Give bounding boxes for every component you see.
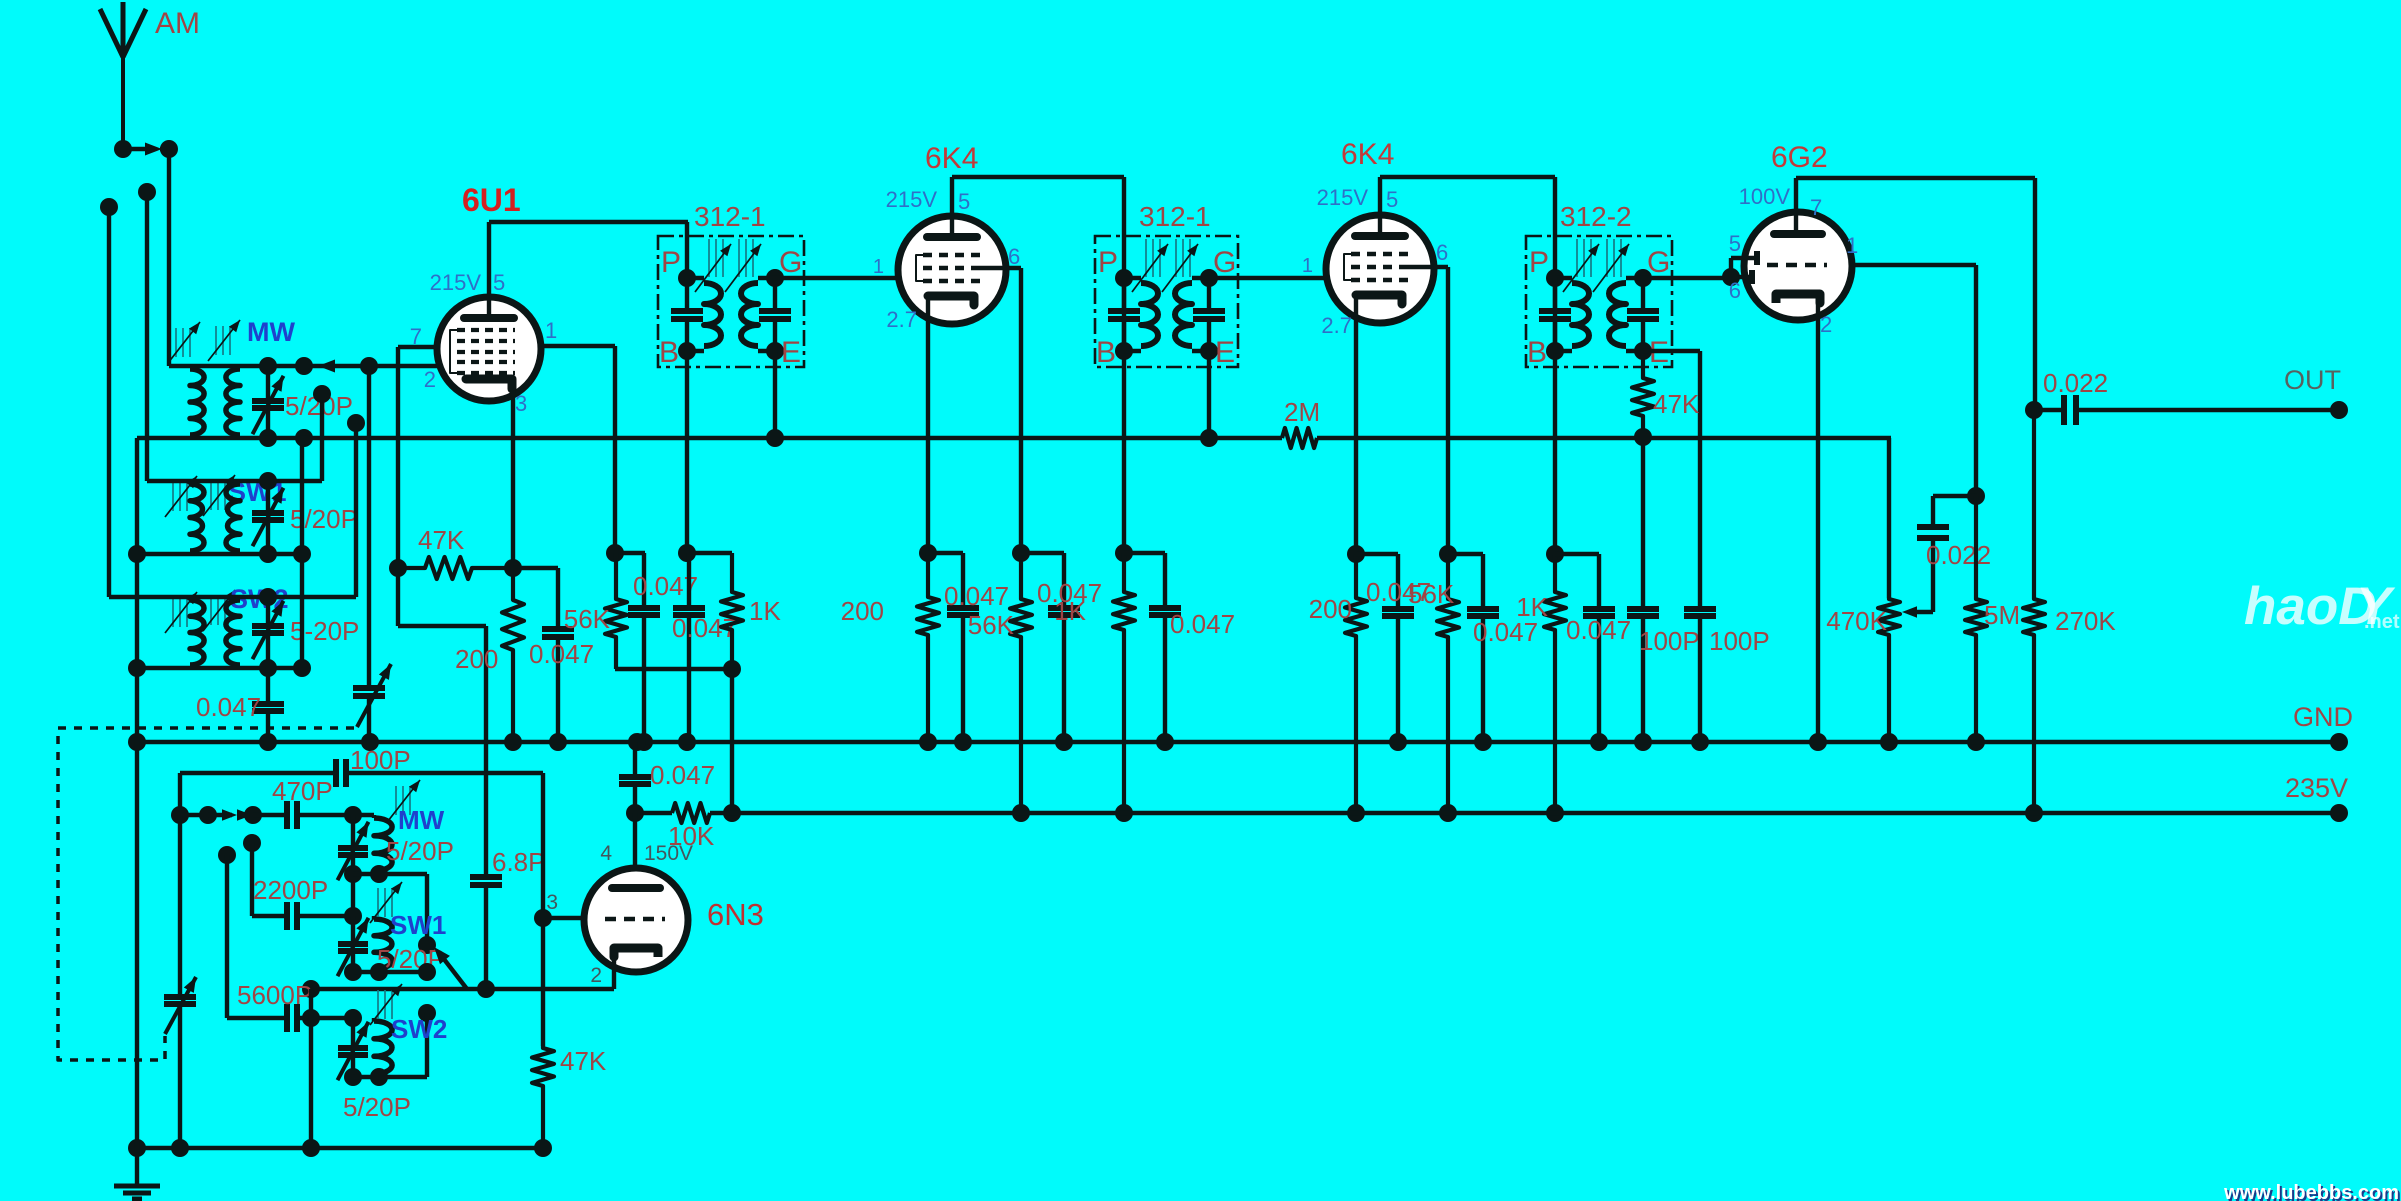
- tube 6K4 second: [1326, 215, 1434, 323]
- resistor 2M: [1282, 397, 1320, 448]
- capacitor 0.047: [513, 568, 594, 751]
- label 235V: [2285, 773, 2348, 803]
- label SW1 (osc): [390, 910, 446, 940]
- resistor 56K: [564, 553, 627, 669]
- wire: [606, 544, 732, 562]
- capacitor 0.047: [1555, 554, 1631, 751]
- svg-text:47K: 47K: [418, 525, 465, 555]
- svg-text:0.022: 0.022: [2043, 368, 2108, 398]
- capacitor 0.047: [928, 553, 1009, 751]
- wire 6U1 pin3: [511, 390, 515, 568]
- coil L3 SW1 primary: [190, 484, 204, 551]
- svg-text:6N3: 6N3: [707, 897, 764, 932]
- pin 1 label: [1846, 233, 1858, 258]
- ground: [114, 1186, 160, 1199]
- pin 2 label: [1820, 312, 1832, 337]
- tube 6K4 first: [898, 216, 1006, 324]
- svg-text:P: P: [1529, 246, 1549, 279]
- pin 1 label: [545, 318, 557, 343]
- svg-text:P: P: [661, 246, 681, 279]
- trimmer cap 5/20P SW1: [252, 481, 284, 554]
- svg-text:GND: GND: [2293, 702, 2353, 732]
- label MW (osc): [398, 805, 445, 835]
- label SW1: [228, 477, 287, 507]
- svg-text:5: 5: [493, 270, 505, 295]
- pin 2 label: [424, 367, 436, 392]
- svg-text:5M: 5M: [1984, 600, 2020, 630]
- wire 6G2 plate bus: [1796, 178, 2035, 410]
- svg-text:G: G: [1647, 246, 1670, 279]
- svg-text:P: P: [1098, 246, 1118, 279]
- tube 6N3: [584, 868, 688, 972]
- svg-text:B: B: [659, 336, 679, 369]
- svg-text:0.047: 0.047: [1566, 615, 1631, 645]
- wire 6G2 grid out: [1852, 265, 1985, 505]
- wire grid feed x=543: [534, 773, 552, 1046]
- coil osc MW: [374, 815, 392, 874]
- svg-text:7: 7: [1810, 195, 1822, 220]
- capacitor 100P: [1627, 437, 1700, 751]
- svg-text:2M: 2M: [1284, 397, 1320, 427]
- GND bus junction dots: [128, 733, 646, 751]
- wire 6U1 pin1: [541, 346, 615, 553]
- pin 6 label: [1436, 240, 1448, 265]
- pin 2.7 label: [886, 307, 917, 332]
- wire E3 cap line: [1643, 351, 1700, 352]
- IF transformer 312-1 (first): [658, 201, 804, 369]
- watermark haoDIY.net: [2244, 577, 2400, 636]
- svg-text:G: G: [1213, 246, 1236, 279]
- hatch arrows osc MW: [388, 780, 420, 821]
- svg-text:235V: 235V: [2285, 773, 2348, 803]
- label 215V: [886, 187, 938, 212]
- wire x=311 to bottom: [309, 989, 313, 1148]
- svg-text:200: 200: [455, 644, 498, 674]
- variable capacitor (tuning gang 1): [353, 366, 391, 742]
- wire E2 to AGC: [1200, 351, 1218, 447]
- svg-text:E: E: [1215, 336, 1235, 369]
- svg-text:56K: 56K: [968, 610, 1015, 640]
- wire contact x=356: [304, 414, 365, 597]
- svg-text:AM: AM: [155, 7, 200, 40]
- capacitor 100P: [1684, 352, 1770, 751]
- coil L4 SW1 secondary: [226, 484, 240, 551]
- wire MW top rail: [169, 357, 437, 375]
- potentiometer 470K: [1826, 438, 1900, 751]
- label 5/20P: [285, 391, 353, 421]
- wire osc MW bottom: [344, 865, 436, 954]
- pin 3 label: [546, 891, 558, 914]
- wire 6K4b screen pin6: [1408, 267, 1457, 563]
- wire SW1 bottom rail: [137, 472, 302, 563]
- svg-text:150V: 150V: [644, 842, 693, 865]
- svg-text:5: 5: [1386, 187, 1398, 212]
- svg-text:215V: 215V: [430, 270, 482, 295]
- label 150V: [644, 842, 693, 865]
- coil osc SW1: [374, 916, 392, 972]
- svg-text:47K: 47K: [1653, 389, 1700, 419]
- switch contact: [418, 1004, 436, 1077]
- svg-text:215V: 215V: [886, 187, 938, 212]
- svg-text:5/20P: 5/20P: [386, 836, 454, 866]
- wire GND bus: [137, 733, 2348, 751]
- svg-text:MW: MW: [398, 805, 445, 835]
- svg-text:100V: 100V: [1739, 184, 1791, 209]
- pin 5 label: [958, 189, 970, 214]
- label 6N3: [707, 897, 764, 932]
- svg-text:G: G: [779, 246, 802, 279]
- resistor 47K (6U1): [389, 525, 522, 579]
- label GND: [2293, 702, 2353, 732]
- wire SW1 top rail: [147, 479, 322, 483]
- wire G1 to 6K4 grid: [775, 256, 898, 278]
- trimmer 5/20P osc SW1: [338, 916, 445, 976]
- svg-text:B: B: [1527, 336, 1547, 369]
- svg-text:270K: 270K: [2055, 606, 2116, 636]
- pin 2 label: [590, 964, 602, 987]
- svg-text:1K: 1K: [1054, 596, 1086, 626]
- svg-text:2.7: 2.7: [1321, 313, 1352, 338]
- wire SW2 top rail: [109, 595, 302, 599]
- capacitor 0.047: [672, 553, 737, 751]
- wire: [145, 192, 149, 481]
- capacitor 0.047 (osc plate bypass): [619, 742, 715, 822]
- pin 5 label: [1729, 231, 1741, 256]
- hatch arrows SW2: [165, 590, 235, 633]
- svg-text:www.lubebbs.com: www.lubebbs.com: [2223, 1182, 2399, 1201]
- svg-text:6K4: 6K4: [1341, 138, 1394, 171]
- wire SW2 bottom rail: [137, 588, 302, 677]
- svg-text:0.047: 0.047: [650, 760, 715, 790]
- svg-text:2: 2: [590, 964, 602, 987]
- capacitor 0.047: [1356, 554, 1431, 751]
- trimmer 5/20P osc SW2: [338, 1018, 411, 1122]
- coil osc SW2: [374, 1018, 392, 1077]
- hatch arrows osc SW1: [370, 882, 402, 923]
- label 6U1: [462, 182, 521, 218]
- resistor 47K (6N3 grid leak): [532, 1046, 607, 1148]
- wire secondary chain x=302: [293, 438, 311, 677]
- pin 5 label: [493, 270, 505, 295]
- label 6K4: [1341, 138, 1394, 171]
- wire 6N3 grid: [543, 916, 584, 920]
- wire B3 chain: [1546, 279, 1564, 563]
- hatch arrows osc SW2: [370, 984, 402, 1025]
- wire G3 to 6G2 grid: [1643, 268, 1740, 286]
- wire G2 to 6K4b grid: [1209, 255, 1328, 278]
- switch wiper (osc): [434, 947, 467, 989]
- variable capacitor (tuning gang 2): [164, 815, 196, 1148]
- antenna AM: [100, 2, 200, 149]
- wire 6U1 plate to 312-1: [489, 222, 688, 318]
- svg-text:312-1: 312-1: [1139, 201, 1211, 232]
- pin 6 label: [1008, 244, 1020, 269]
- svg-text:3: 3: [515, 391, 527, 416]
- svg-text:1: 1: [1302, 255, 1313, 277]
- svg-text:5600P: 5600P: [237, 980, 312, 1010]
- wire 6N3 plate: [633, 813, 637, 868]
- trimmer 5/20P osc MW: [338, 815, 454, 916]
- capacitor 6.8P: [470, 847, 546, 989]
- pin 7 label: [1810, 195, 1822, 220]
- svg-text:215V: 215V: [1317, 185, 1369, 210]
- resistor 47K (312-2 E): [1632, 352, 1700, 446]
- svg-text:2200P: 2200P: [253, 875, 328, 905]
- svg-text:6: 6: [1008, 244, 1020, 269]
- svg-text:6U1: 6U1: [462, 182, 521, 218]
- wire AGC bus: [137, 436, 1891, 440]
- svg-text:0.047: 0.047: [944, 581, 1009, 611]
- pin 5 label: [1386, 187, 1398, 212]
- svg-text:5: 5: [958, 189, 970, 214]
- label SW2: [230, 584, 289, 614]
- hatch arrows MW: [168, 320, 240, 363]
- svg-text:6G2: 6G2: [1771, 141, 1828, 174]
- svg-text:312-2: 312-2: [1560, 201, 1632, 232]
- wire 6N3 cathode: [302, 950, 614, 998]
- coil L2 MW secondary: [226, 369, 240, 435]
- label OUT: [2284, 365, 2341, 395]
- label 6K4: [925, 142, 978, 175]
- wire osc top rail: [171, 773, 374, 829]
- capacitor 0.047 (ant): [196, 668, 284, 742]
- svg-text:2: 2: [1820, 312, 1832, 337]
- label 5/20P: [290, 504, 358, 534]
- svg-text:6: 6: [1729, 278, 1741, 303]
- coil L5 SW2 primary: [190, 600, 204, 665]
- wire: [615, 667, 732, 671]
- pin 2.7 label: [1321, 313, 1352, 338]
- capacitor 0.047: [1448, 554, 1538, 751]
- wire 6G2 cathode to GND: [1809, 297, 1827, 751]
- resistor 56K: [968, 553, 1032, 822]
- label 10K: [668, 821, 715, 851]
- svg-text:SW2: SW2: [391, 1014, 447, 1044]
- tube 6U1: [437, 297, 541, 401]
- band switch (antenna): [100, 140, 178, 216]
- capacitor 0.022 (feedback): [1902, 496, 1991, 618]
- svg-text:470K: 470K: [1826, 606, 1887, 636]
- svg-text:E: E: [781, 336, 801, 369]
- wire x=137 to ground: [135, 742, 139, 1186]
- svg-text:1K: 1K: [749, 596, 781, 626]
- resistor 1K: [1516, 554, 1566, 822]
- resistor 1K: [1054, 553, 1135, 822]
- wire osc SW1 bottom: [344, 963, 436, 981]
- wire 6G2 grid tie: [1731, 251, 1757, 284]
- wire 6K4 cathode: [919, 300, 937, 562]
- wire 6U1 pin7: [398, 347, 437, 568]
- wire 6K4b cathode: [1347, 299, 1365, 563]
- resistor 200 (6U1 cath): [455, 568, 524, 751]
- label MW: [247, 317, 295, 347]
- capacitor 2200P: [243, 834, 362, 930]
- svg-text:6K4: 6K4: [925, 142, 978, 175]
- wire B2 chain: [1115, 278, 1133, 562]
- svg-text:2: 2: [424, 367, 436, 392]
- gang linkage (dashed): [58, 728, 354, 1060]
- svg-text:100P: 100P: [1639, 626, 1700, 656]
- label 6G2: [1771, 141, 1828, 174]
- wire 6K4 plate bus: [952, 177, 1124, 278]
- wire 100P line: [180, 745, 543, 787]
- label 470P: [272, 776, 333, 806]
- trimmer cap 5/20P MW: [252, 366, 284, 438]
- pin 4 label: [600, 842, 612, 865]
- wire E1 to AGC: [766, 351, 784, 447]
- capacitor 0.047: [1021, 553, 1102, 751]
- svg-text:3: 3: [546, 891, 558, 914]
- svg-text:1: 1: [545, 318, 557, 343]
- coil L1 MW primary: [190, 369, 204, 435]
- svg-text:470P: 470P: [272, 776, 333, 806]
- pin 6 label: [1729, 278, 1741, 303]
- wire SW1 top to contact x=322: [313, 385, 331, 481]
- svg-text:5: 5: [1729, 231, 1741, 256]
- wire 6K4 screen pin6: [980, 268, 1030, 562]
- svg-text:OUT: OUT: [2284, 365, 2341, 395]
- svg-text:0.047: 0.047: [529, 639, 594, 669]
- wire primary-bottom chain: [128, 438, 146, 742]
- tube 6G2: [1744, 212, 1852, 320]
- label SW2 (osc): [391, 1014, 447, 1044]
- svg-text:47K: 47K: [560, 1046, 607, 1076]
- coil L6 SW2 secondary: [226, 600, 240, 665]
- svg-text:4: 4: [600, 842, 612, 865]
- pin 3 label: [515, 391, 527, 416]
- wire: [107, 207, 111, 597]
- trimmer cap 5-20P SW2: [252, 597, 284, 668]
- label 5-20P: [290, 616, 359, 646]
- svg-text:.net: .net: [2364, 611, 2400, 633]
- capacitor 0.047: [628, 553, 698, 751]
- svg-text:1: 1: [873, 256, 884, 278]
- svg-text:B: B: [1096, 336, 1116, 369]
- watermark lubebbs: [2223, 1182, 2401, 1201]
- svg-text:0.022: 0.022: [1926, 540, 1991, 570]
- capacitor 0.022 (output): [2025, 368, 2348, 425]
- wire MW bottom rail -> AGC bus start: [259, 357, 313, 447]
- resistor 56K: [1408, 554, 1459, 822]
- resistor 5M: [1965, 496, 2020, 751]
- label 215V: [430, 270, 482, 295]
- svg-text:MW: MW: [247, 317, 295, 347]
- svg-text:100P: 100P: [350, 745, 411, 775]
- wire: [398, 568, 486, 875]
- pin 7 label: [410, 324, 422, 349]
- resistor 270K (6G2 plate load): [2023, 410, 2116, 822]
- wire bottom rail: [128, 1139, 552, 1157]
- svg-text:2.7: 2.7: [886, 307, 917, 332]
- svg-text:0.047: 0.047: [1170, 609, 1235, 639]
- resistor 1K: [721, 553, 781, 822]
- wire osc SW2 bottom: [344, 1068, 427, 1086]
- svg-text:1: 1: [1846, 233, 1858, 258]
- svg-text:200: 200: [841, 596, 884, 626]
- wire B1 down: [685, 351, 689, 553]
- svg-text:6: 6: [1436, 240, 1448, 265]
- resistor 200: [841, 553, 939, 751]
- hatch arrows SW1: [165, 475, 235, 517]
- wire 235V bus: [635, 803, 2348, 823]
- svg-text:SW1: SW1: [390, 910, 446, 940]
- wire 6K4b plate bus: [1380, 177, 1555, 279]
- svg-text:0.047: 0.047: [196, 692, 261, 722]
- svg-text:56K: 56K: [564, 604, 611, 634]
- capacitor 0.047: [1124, 553, 1235, 751]
- wire: [167, 149, 171, 366]
- svg-text:6.8P: 6.8P: [492, 847, 546, 877]
- svg-text:1K: 1K: [1516, 592, 1548, 622]
- resistor 200: [1309, 554, 1367, 822]
- IF transformer 312-1 (second): [1095, 201, 1238, 369]
- IF transformer 312-2: [1526, 201, 1672, 369]
- svg-text:200: 200: [1309, 594, 1352, 624]
- label 215V: [1317, 185, 1369, 210]
- label 100V: [1739, 184, 1791, 209]
- svg-text:5/20P: 5/20P: [343, 1092, 411, 1122]
- svg-text:100P: 100P: [1709, 626, 1770, 656]
- svg-text:56K: 56K: [1408, 579, 1455, 609]
- svg-text:312-1: 312-1: [694, 201, 766, 232]
- capacitor 5600P: [218, 846, 362, 1032]
